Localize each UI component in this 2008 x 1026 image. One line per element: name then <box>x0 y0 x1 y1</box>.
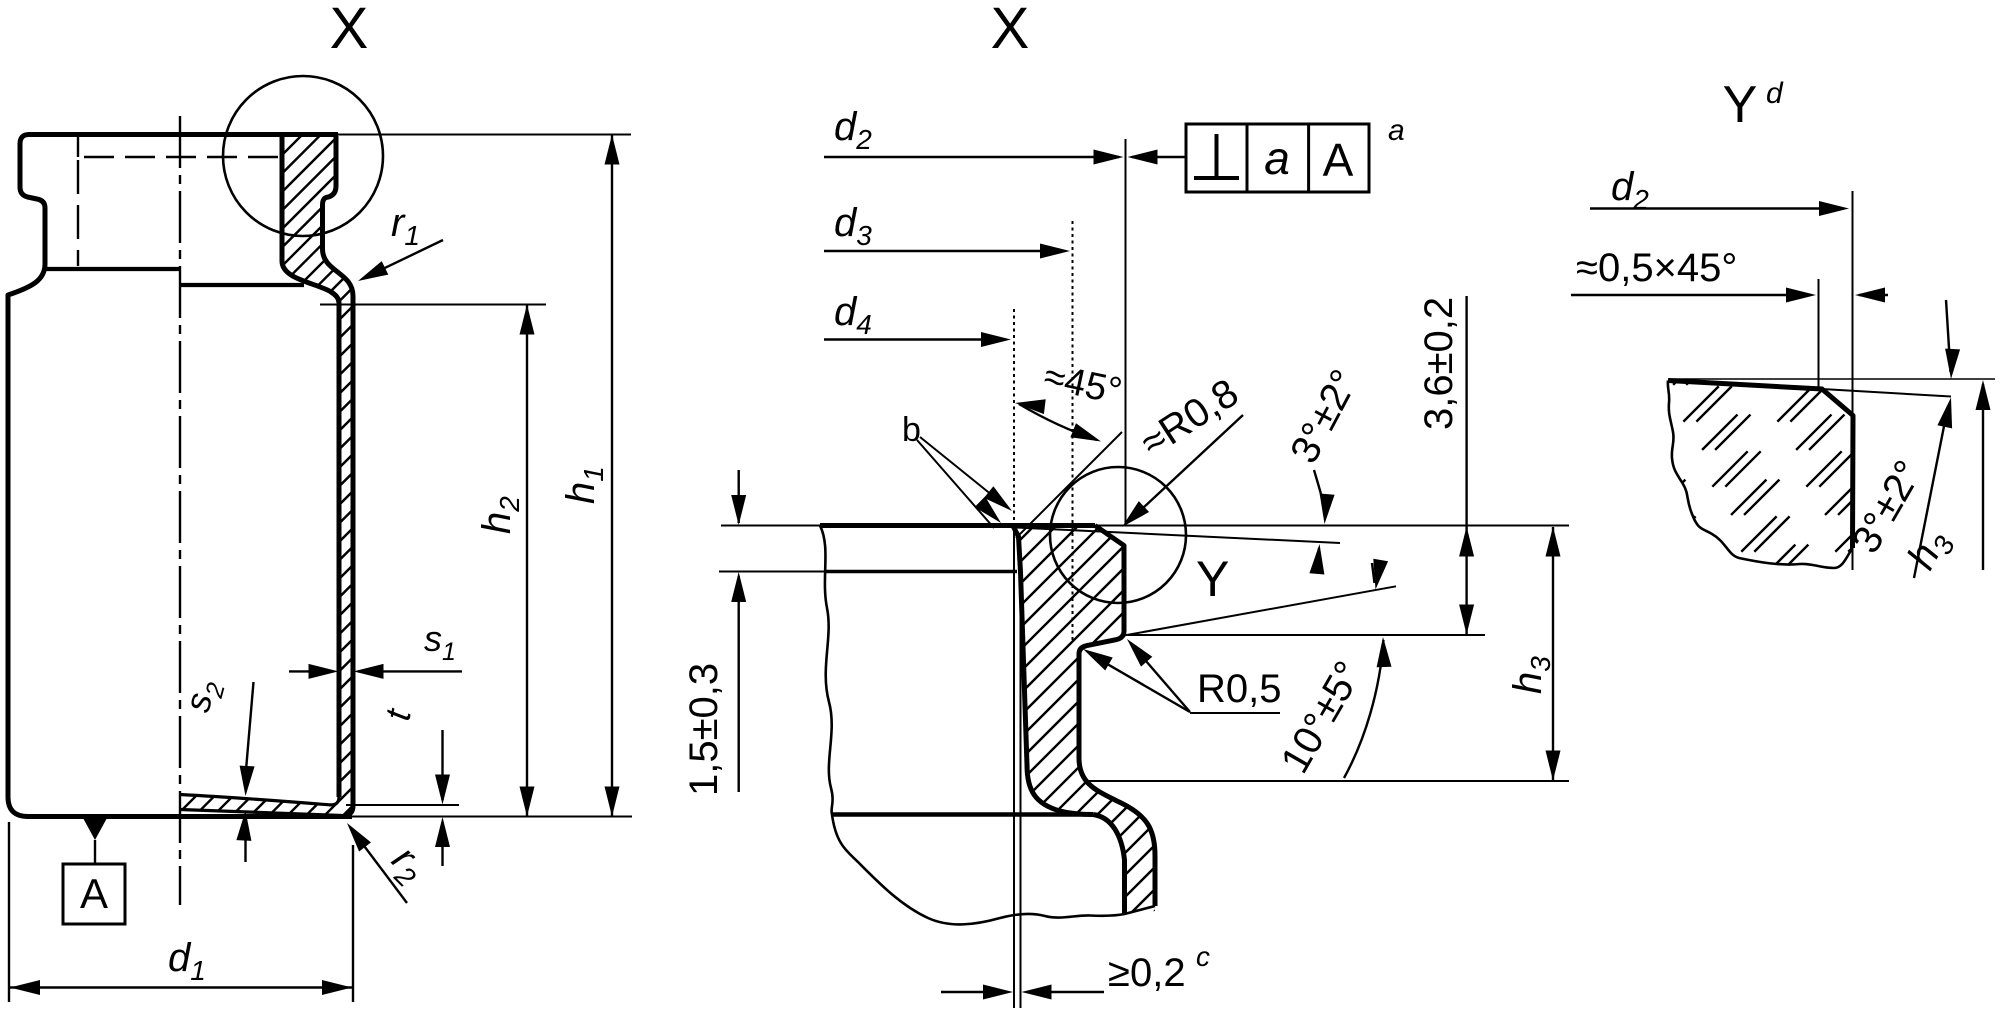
dimension t <box>346 704 459 866</box>
glass section outline (detail X) <box>1013 526 1155 915</box>
svg-text:X: X <box>991 0 1030 61</box>
dimension d3 (detail X) <box>824 201 1073 640</box>
svg-text:Y: Y <box>1723 76 1758 134</box>
svg-text:3,6±0,2: 3,6±0,2 <box>1417 297 1461 430</box>
datum A symbol <box>63 818 125 924</box>
shoulder line in section (left view) <box>180 283 304 287</box>
base bottom surface line (left view) <box>180 810 345 816</box>
dimension h3 (detail X) <box>1085 527 1569 782</box>
svg-text:d: d <box>1766 77 1784 110</box>
svg-text:A: A <box>80 870 108 917</box>
dimension 3deg plus minus 2deg (detail Y) <box>1844 300 1960 578</box>
footnote a superscript <box>1388 114 1405 147</box>
svg-text:a: a <box>1264 132 1290 184</box>
dimension min 0,2 offset (detail X) <box>941 941 1210 1000</box>
dimension 1,5 plus minus 0,3 (detail X) <box>682 470 746 796</box>
horizontal reference line (detail Y) <box>1669 378 1995 380</box>
svg-text:1,5±0,3: 1,5±0,3 <box>682 663 726 796</box>
dimension s1 <box>289 618 462 679</box>
centerline of vial (left view) <box>179 116 181 905</box>
svg-text:b: b <box>902 411 921 449</box>
sealing surface line (detail X) <box>721 525 1569 527</box>
svg-text:Y: Y <box>1196 551 1229 607</box>
dimension d4 (detail X) <box>824 290 1014 1008</box>
dimension 10deg plus minus 5deg (detail X) <box>1124 559 1396 781</box>
dimension R0,5 with leaders (detail X) <box>1083 639 1282 713</box>
dimension h2 <box>320 305 546 817</box>
dimension r2 with leader <box>347 823 435 903</box>
section hatching (detail X) <box>613 520 1546 925</box>
svg-text:≈0,5×45°: ≈0,5×45° <box>1576 246 1737 290</box>
dimension r1 with leader <box>358 201 443 281</box>
dimension d1 <box>9 822 353 1002</box>
svg-text:A: A <box>1323 134 1354 186</box>
dimension d2 with datum target arrows (detail X) <box>824 105 1186 525</box>
vial outer profile left half (left view) <box>8 135 352 817</box>
neck and wall glass section outline (left view) <box>282 136 353 816</box>
section hatching (left view) <box>0 130 1047 820</box>
perpendicularity feature control frame <box>1186 124 1369 192</box>
dimension d2 (detail Y) <box>1590 165 1853 570</box>
glass hatching pairs (detail Y) <box>1478 340 2008 580</box>
svg-text:c: c <box>1196 941 1210 972</box>
dimension 3,6 plus minus 0,2 (detail X) <box>1128 296 1485 635</box>
dimension s2 with leader <box>176 675 254 862</box>
dimension 3deg plus minus 2deg (detail X) <box>1282 363 1367 575</box>
bore taper construction line 3deg (detail X) <box>1016 528 1340 544</box>
bore ledge line (detail X) <box>719 571 1017 573</box>
right view title Y with superscript d <box>1723 76 1784 134</box>
svg-text:a: a <box>1388 114 1405 147</box>
hidden bore lines (left view) <box>78 136 281 266</box>
dimension approx 45deg chamfer angle (detail X) <box>1015 356 1125 538</box>
shoulder line (detail X) <box>831 812 1093 817</box>
glass fragment outline (detail Y) <box>1668 381 1853 569</box>
dimension approx 0,5 x 45deg chamfer (detail Y) <box>1571 246 1888 388</box>
svg-text:X: X <box>330 0 369 61</box>
dimension h3 (detail Y) <box>1899 380 1990 579</box>
dimension h1 <box>338 135 632 817</box>
shoulder silhouette line (left view) <box>44 267 180 271</box>
detail circle Y (detail X) <box>1050 467 1229 607</box>
svg-text:R0,5: R0,5 <box>1197 667 1282 711</box>
left view title X <box>330 0 369 61</box>
inner wall offset extension line (detail X) <box>1020 573 1022 1008</box>
detail circle X (left view) <box>223 76 383 236</box>
dimension approx R0,8 with leader (detail X) <box>1122 371 1246 527</box>
svg-text:≥0,2: ≥0,2 <box>1108 951 1186 995</box>
note b with leaders (detail X) <box>902 411 1012 528</box>
middle view title X <box>991 0 1030 61</box>
base inner floor line (left view) <box>180 795 339 805</box>
break line torn edge (detail X) <box>820 526 1155 925</box>
taper extension line 3deg (detail Y) <box>1822 389 1951 397</box>
